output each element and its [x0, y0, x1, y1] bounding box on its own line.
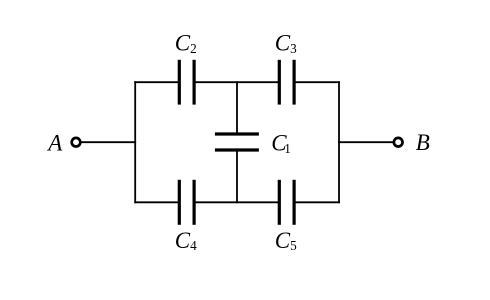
wire bottom-middle segment: [196, 201, 278, 203]
capacitor C5: [279, 180, 294, 225]
svg-text:A: A: [46, 131, 63, 156]
wire top-left segment: [135, 81, 178, 83]
capacitor C3: [279, 60, 294, 105]
wire left rail: [134, 82, 136, 202]
wire A lead: [82, 141, 135, 143]
wire middle lower segment: [236, 151, 238, 202]
capacitor C2: [179, 60, 194, 105]
terminal A: [72, 138, 81, 147]
wire B lead: [339, 141, 392, 143]
terminal B: [394, 138, 403, 147]
wire middle upper segment: [236, 82, 238, 132]
wire bottom-right segment: [296, 201, 339, 203]
capacitor C4: [179, 180, 194, 225]
wire right rail: [338, 82, 340, 202]
wire top-middle segment: [196, 81, 278, 83]
wire bottom-left segment: [135, 201, 178, 203]
wire top-right segment: [296, 81, 339, 83]
capacitor C1: [215, 134, 259, 150]
svg-text:B: B: [416, 130, 430, 155]
